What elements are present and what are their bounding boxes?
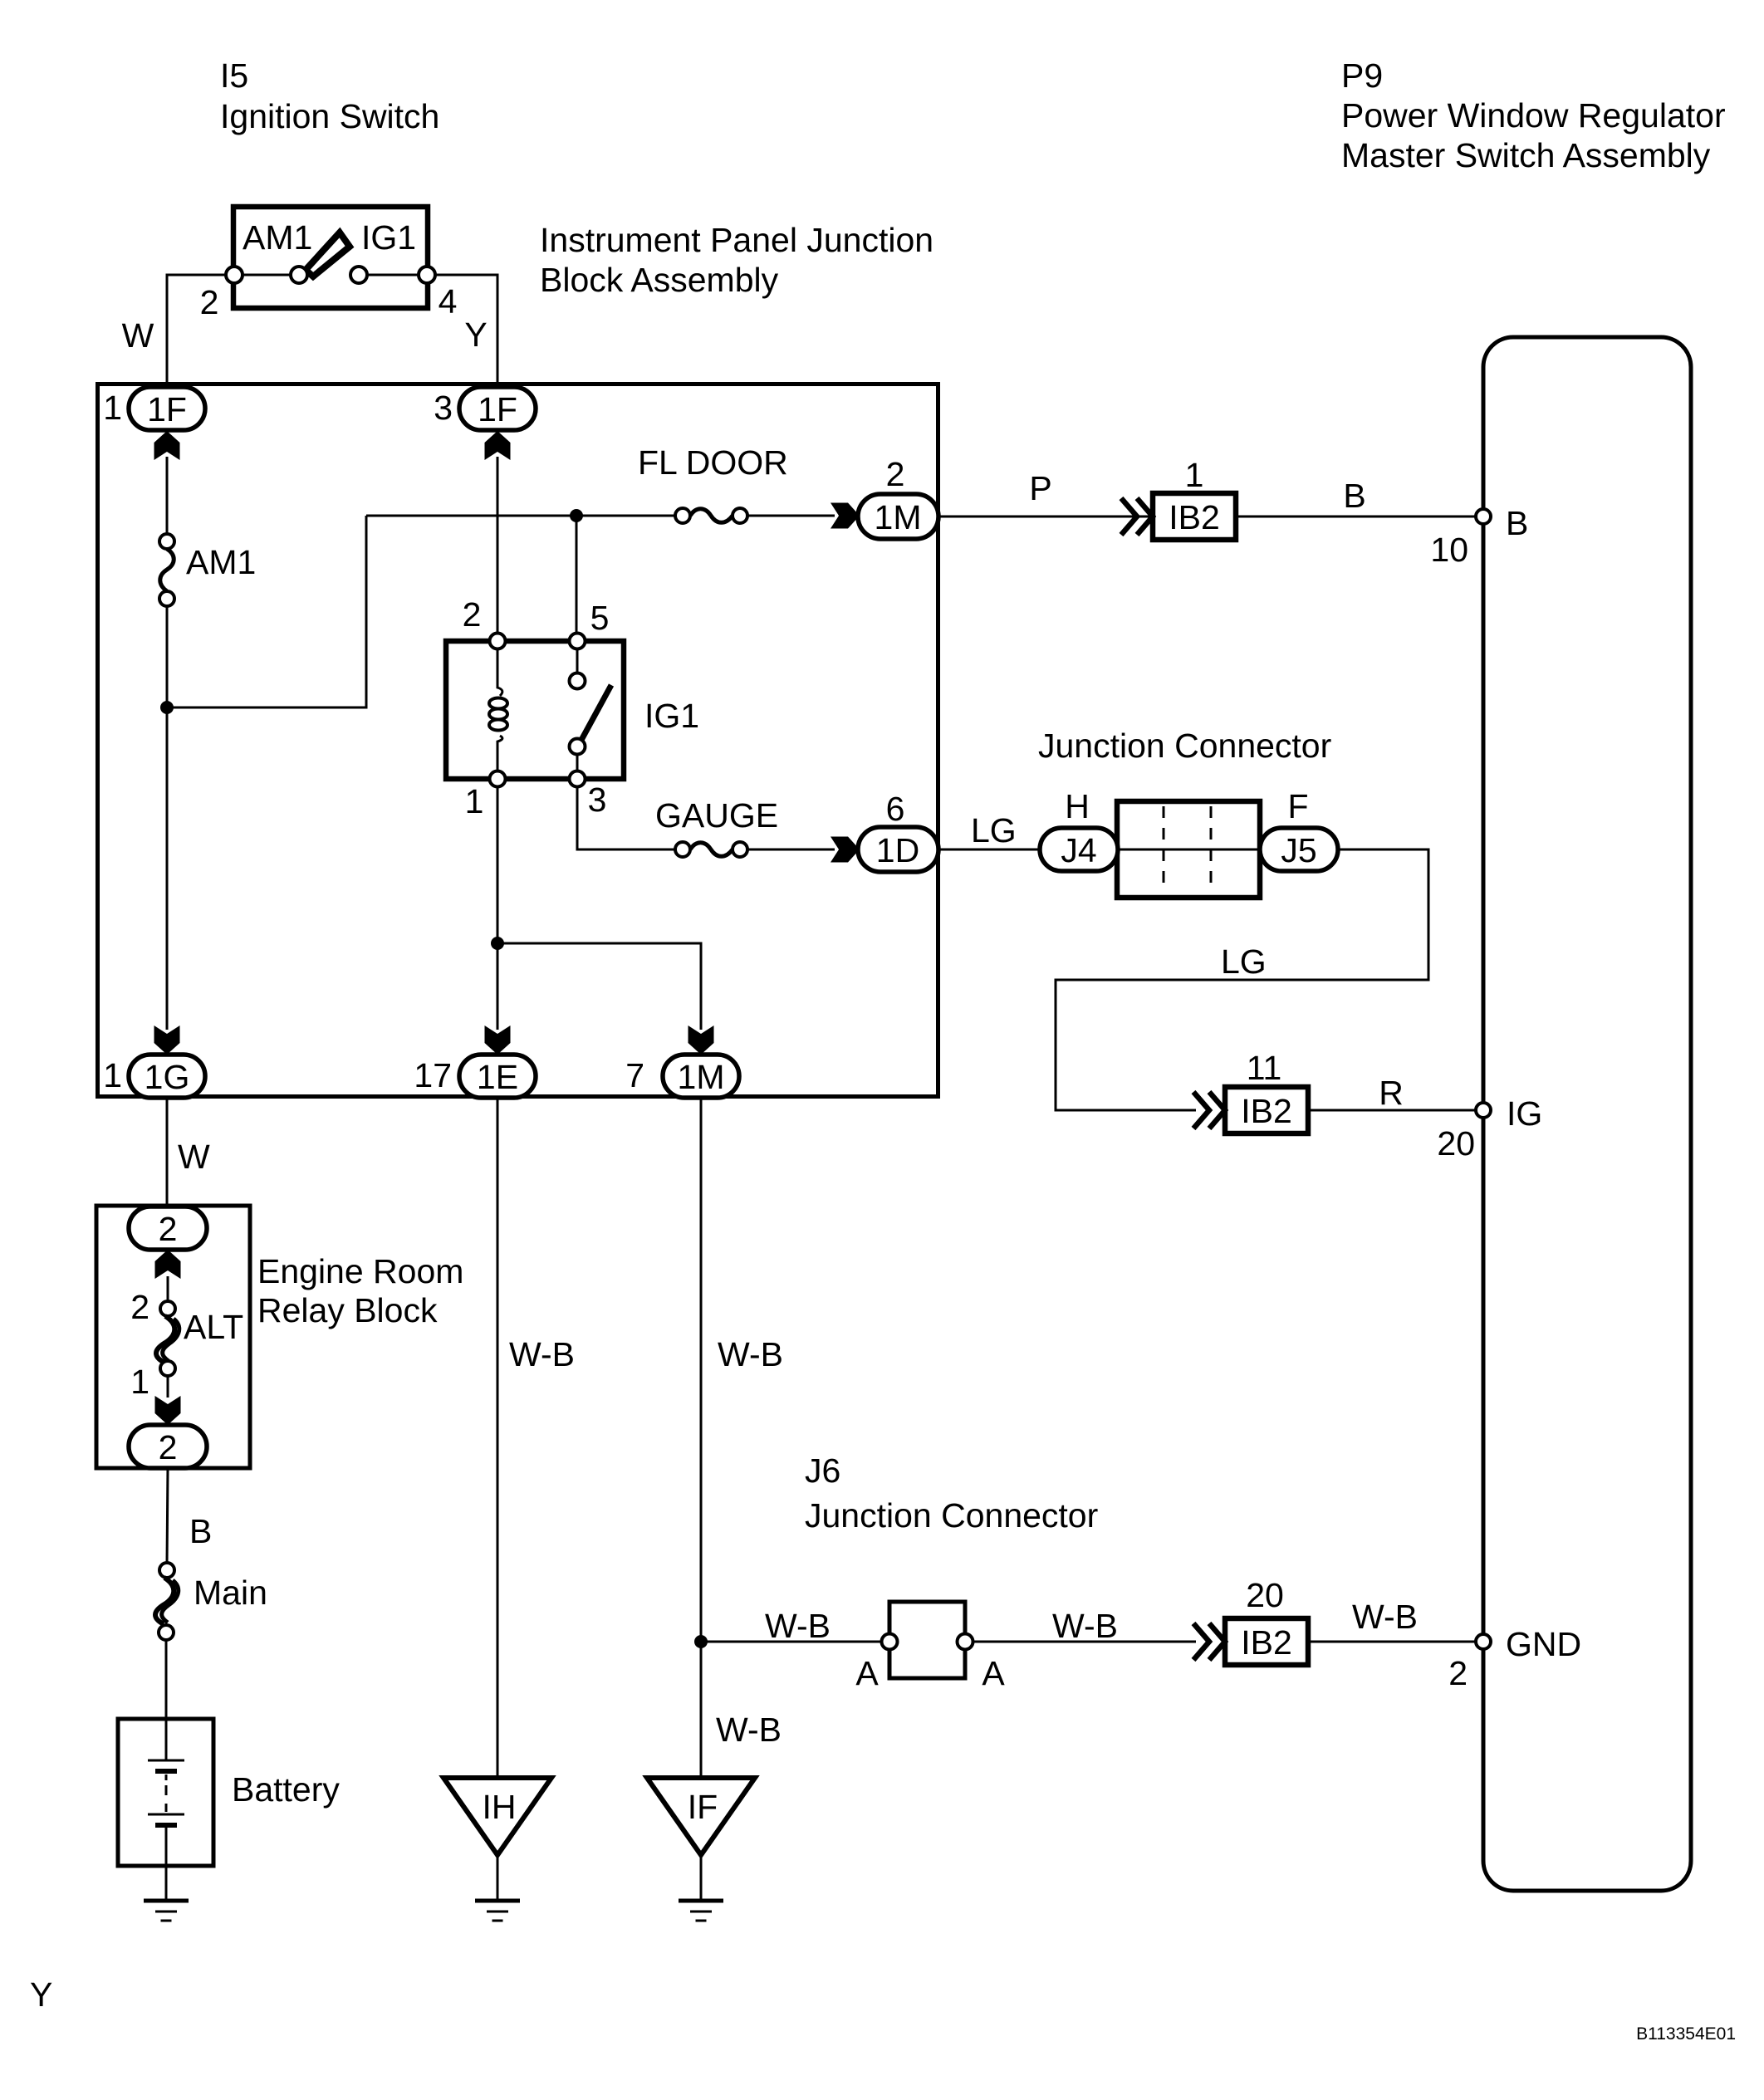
- arrow into 1E: [485, 1026, 511, 1055]
- connector 1G pin 1: [103, 1055, 205, 1098]
- svg-text:2: 2: [159, 1210, 178, 1248]
- svg-text:FL DOOR: FL DOOR: [638, 443, 788, 482]
- label I5 Ignition Switch: [220, 56, 439, 135]
- fusible link Main: [155, 1563, 267, 1640]
- wire relay pin3 to GAUGE fuse: [577, 786, 676, 849]
- svg-text:Instrument Panel Junction: Instrument Panel Junction: [540, 221, 933, 259]
- svg-text:GAUGE: GAUGE: [655, 796, 778, 835]
- svg-text:1F: 1F: [478, 390, 517, 428]
- ground battery: [144, 1901, 189, 1921]
- svg-text:Y: Y: [464, 316, 487, 354]
- relay pin 3 circle: [570, 771, 586, 787]
- ground triangle IH: [443, 1778, 551, 1855]
- svg-text:IB2: IB2: [1241, 1092, 1292, 1130]
- svg-text:IB2: IB2: [1169, 498, 1220, 536]
- svg-text:Master Switch Assembly: Master Switch Assembly: [1341, 136, 1711, 174]
- connector J4 pin H: [1040, 787, 1118, 871]
- connector 1D pin 6: [858, 790, 938, 872]
- wire from dot down to relay pin 5: [576, 516, 578, 638]
- chevrons into IB2 pin20: [1193, 1623, 1225, 1660]
- chevrons into IB2 pin11: [1193, 1092, 1225, 1128]
- wire relay pin1 down to 1E: [497, 786, 499, 1030]
- connector 1M pin 7: [625, 1055, 739, 1098]
- wire B from relay block to Main fuse: [167, 1468, 168, 1564]
- svg-text:W-B: W-B: [509, 1335, 575, 1373]
- svg-text:F: F: [1287, 787, 1308, 825]
- svg-text:1E: 1E: [477, 1058, 518, 1096]
- wire branch to 1M pin7: [497, 943, 701, 1030]
- relay pin 5 circle: [570, 634, 586, 649]
- fuse GAUGE: [675, 842, 747, 857]
- arrow into 1M: [831, 503, 860, 529]
- wire Main fuse to battery: [165, 1640, 168, 1721]
- node junction dot on 1E wire: [491, 937, 504, 950]
- svg-text:J6: J6: [805, 1451, 840, 1490]
- ignition switch I5 box: [233, 207, 428, 308]
- wire R from IB2 to master switch IG: [1308, 1109, 1483, 1112]
- svg-text:W-B: W-B: [765, 1607, 831, 1645]
- connector 1E pin 17: [414, 1055, 536, 1098]
- ignition terminal 4 circle: [419, 267, 435, 283]
- ignition terminal 2 circle: [226, 267, 243, 283]
- connector 1F pin 3: [434, 387, 536, 430]
- wire J6 to IB2 pin20: [973, 1641, 1196, 1643]
- svg-text:11: 11: [1247, 1049, 1282, 1087]
- relay coil: [489, 649, 507, 779]
- arrow into 1F pin1: [154, 431, 180, 460]
- connector J5 pin F: [1260, 787, 1338, 871]
- svg-text:6: 6: [886, 790, 905, 828]
- label Engine Room Relay Block: [257, 1252, 463, 1329]
- svg-text:10: 10: [1430, 531, 1468, 569]
- wire battery to ground: [165, 1866, 168, 1900]
- svg-text:Relay Block: Relay Block: [257, 1291, 438, 1329]
- J6 pin A left: [882, 1634, 898, 1650]
- svg-text:IG1: IG1: [644, 697, 699, 735]
- svg-text:20: 20: [1246, 1576, 1284, 1614]
- wire ignition contact segment AM1 side: [243, 274, 291, 277]
- wire IF to ground: [700, 1855, 703, 1900]
- label P9 Power Window Regulator Master Switch Assembly: [1341, 56, 1726, 174]
- svg-text:1: 1: [465, 782, 484, 820]
- fusible link ALT: [130, 1288, 243, 1401]
- relay block top connector 2: [129, 1207, 207, 1250]
- svg-text:Y: Y: [30, 1975, 52, 2014]
- svg-text:LG: LG: [1221, 942, 1267, 981]
- svg-text:Junction Connector: Junction Connector: [805, 1496, 1098, 1535]
- relay block bottom connector 2: [129, 1425, 207, 1468]
- svg-text:B: B: [189, 1512, 212, 1550]
- connector 1M pin 2: [858, 455, 938, 539]
- svg-text:J5: J5: [1281, 831, 1316, 869]
- svg-text:17: 17: [414, 1056, 452, 1094]
- svg-text:1M: 1M: [678, 1058, 725, 1096]
- wire B from IB2 to master switch: [1236, 516, 1483, 518]
- svg-text:P9: P9: [1341, 56, 1383, 95]
- svg-text:R: R: [1379, 1074, 1404, 1112]
- relay pin labels: [463, 595, 610, 820]
- svg-text:20: 20: [1437, 1124, 1475, 1163]
- chevrons into IB2 pin1: [1121, 498, 1153, 535]
- connector 1F pin 1: [103, 387, 205, 430]
- power window regulator master switch assembly P9 outline: [1483, 337, 1691, 1891]
- wire IH to ground: [497, 1855, 499, 1900]
- junction connector box dashed: [1117, 801, 1260, 898]
- relay switch arm: [581, 685, 611, 742]
- ignition switch lever: [306, 233, 350, 277]
- svg-text:W-B: W-B: [1352, 1598, 1418, 1636]
- wire FL DOOR fuse to 1M: [747, 515, 835, 517]
- svg-text:ALT: ALT: [184, 1308, 243, 1346]
- ground IF: [679, 1901, 723, 1921]
- svg-text:Block Assembly: Block Assembly: [540, 261, 779, 299]
- arrow into 1M pin7: [688, 1026, 714, 1055]
- relay switch contact fixed: [576, 649, 579, 673]
- svg-text:A: A: [982, 1654, 1005, 1692]
- svg-text:1: 1: [130, 1363, 149, 1401]
- svg-text:Junction Connector: Junction Connector: [1038, 727, 1331, 765]
- battery: [118, 1719, 340, 1866]
- svg-text:J4: J4: [1061, 831, 1096, 869]
- wire LG route from J5 to IB2 pin11: [1056, 849, 1428, 1110]
- svg-text:IH: IH: [483, 1788, 517, 1826]
- svg-text:IB2: IB2: [1241, 1623, 1292, 1662]
- wire W-B from 1E to IH: [497, 1098, 499, 1778]
- engine room relay block box: [96, 1206, 250, 1468]
- svg-text:Battery: Battery: [232, 1770, 340, 1809]
- svg-text:W-B: W-B: [716, 1711, 782, 1749]
- svg-text:2: 2: [200, 283, 219, 321]
- svg-text:2: 2: [159, 1428, 178, 1466]
- wire from AM1 fuse down to 1G: [166, 606, 169, 1030]
- svg-text:1: 1: [103, 389, 122, 427]
- svg-text:1D: 1D: [876, 831, 919, 869]
- node junction dot on AM1 wire: [160, 701, 174, 714]
- svg-text:B: B: [1343, 477, 1365, 515]
- svg-text:1: 1: [103, 1056, 122, 1094]
- svg-text:1: 1: [1185, 456, 1204, 494]
- svg-text:W: W: [178, 1138, 210, 1176]
- wire W from ignition pin 2 to 1F: [167, 275, 226, 384]
- svg-text:W-B: W-B: [718, 1335, 783, 1373]
- wire Y from ignition pin 4 to 1F: [435, 275, 497, 384]
- label Instrument Panel Junction Block Assembly: [540, 221, 933, 299]
- wire from 1F pin3 down to relay pin 2: [497, 457, 499, 638]
- svg-text:LG: LG: [971, 811, 1017, 849]
- svg-text:3: 3: [434, 389, 453, 427]
- fuse AM1: [159, 534, 256, 606]
- svg-text:2: 2: [130, 1288, 149, 1326]
- master switch pin B 10: [1430, 504, 1528, 569]
- svg-text:GND: GND: [1506, 1625, 1581, 1663]
- ground IH: [475, 1901, 520, 1921]
- ignition AM1 contact circle: [291, 267, 307, 283]
- svg-text:3: 3: [588, 781, 607, 819]
- arrow into 1D: [831, 837, 860, 863]
- svg-text:AM1: AM1: [186, 543, 256, 581]
- J6 pin A right: [958, 1634, 973, 1650]
- svg-text:Engine Room: Engine Room: [257, 1252, 463, 1290]
- wire from 1F pin1 down to AM1 fuse: [166, 457, 169, 535]
- svg-text:B: B: [1506, 504, 1528, 542]
- ground triangle IF: [647, 1778, 755, 1855]
- wire from dot to J6: [701, 1641, 883, 1643]
- connector IB2 pin 11: [1225, 1049, 1308, 1133]
- arrow into 1G: [154, 1026, 180, 1055]
- wire branch from AM1 junction up to FL DOOR line: [167, 516, 366, 707]
- node junction dot to J6: [694, 1635, 708, 1648]
- arrow into bottom connector 2: [155, 1396, 181, 1425]
- svg-text:AM1: AM1: [243, 218, 312, 257]
- svg-text:Ignition Switch: Ignition Switch: [220, 97, 439, 135]
- svg-text:2: 2: [463, 595, 482, 634]
- connector IB2 pin 1: [1153, 456, 1236, 540]
- svg-text:IG: IG: [1507, 1094, 1542, 1133]
- wire ignition contact segment IG1 side: [367, 274, 419, 277]
- svg-text:Main: Main: [194, 1574, 267, 1612]
- svg-text:A: A: [855, 1654, 879, 1692]
- svg-text:2: 2: [1448, 1654, 1468, 1692]
- connector IB2 pin 20: [1225, 1576, 1308, 1665]
- svg-text:5: 5: [590, 599, 610, 637]
- arrow into top connector 2: [155, 1250, 181, 1279]
- node junction dot FL DOOR to relay pin5: [570, 509, 583, 522]
- master switch pin GND 2: [1448, 1625, 1581, 1692]
- wire W-B from IB2 to master switch GND: [1308, 1641, 1483, 1643]
- master switch pin IG 20: [1437, 1094, 1542, 1163]
- wire W from 1G to engine room relay block: [166, 1098, 169, 1208]
- svg-text:IG1: IG1: [361, 218, 416, 257]
- svg-text:2: 2: [886, 455, 905, 493]
- svg-text:IF: IF: [688, 1788, 718, 1826]
- wire P from 1M to IB2: [938, 516, 1154, 518]
- svg-text:Power Window Regulator: Power Window Regulator: [1341, 96, 1726, 135]
- label J6 Junction Connector: [805, 1451, 1098, 1535]
- svg-text:1G: 1G: [145, 1058, 190, 1096]
- instrument panel junction block: [98, 384, 938, 1097]
- svg-text:W-B: W-B: [1052, 1607, 1118, 1645]
- wire FL DOOR line left segment: [366, 515, 676, 517]
- junction connector J6 box: [889, 1602, 965, 1678]
- wire to ALT fuse: [167, 1276, 169, 1302]
- svg-text:4: 4: [439, 282, 458, 321]
- ignition IG1 contact circle: [350, 267, 367, 283]
- svg-text:H: H: [1065, 787, 1090, 825]
- wire GAUGE fuse to 1D: [747, 849, 835, 851]
- fuse FL DOOR: [675, 508, 747, 523]
- arrow into 1F pin3: [485, 431, 511, 460]
- svg-text:W: W: [122, 316, 154, 355]
- wire W-B from 1M pin7 down to IF: [700, 1098, 703, 1778]
- svg-text:7: 7: [625, 1056, 644, 1094]
- svg-text:1F: 1F: [147, 390, 187, 428]
- svg-text:I5: I5: [220, 56, 248, 95]
- labels A A: [855, 1654, 1005, 1692]
- wire ALT fuse to bottom connector: [167, 1376, 169, 1398]
- wire LG from 1D to J4: [938, 849, 1043, 851]
- svg-text:P: P: [1029, 469, 1051, 507]
- svg-text:1M: 1M: [875, 498, 922, 536]
- svg-text:B113354E01: B113354E01: [1636, 2024, 1736, 2044]
- relay pin 2 circle: [490, 634, 506, 649]
- relay pin 1 circle: [490, 771, 506, 787]
- relay IG1 box: [446, 641, 624, 779]
